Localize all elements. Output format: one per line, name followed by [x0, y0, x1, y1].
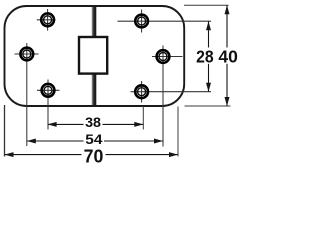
svg-text:40: 40: [218, 46, 238, 66]
svg-text:70: 70: [84, 146, 104, 166]
svg-text:28: 28: [196, 47, 214, 67]
svg-text:38: 38: [85, 114, 101, 130]
